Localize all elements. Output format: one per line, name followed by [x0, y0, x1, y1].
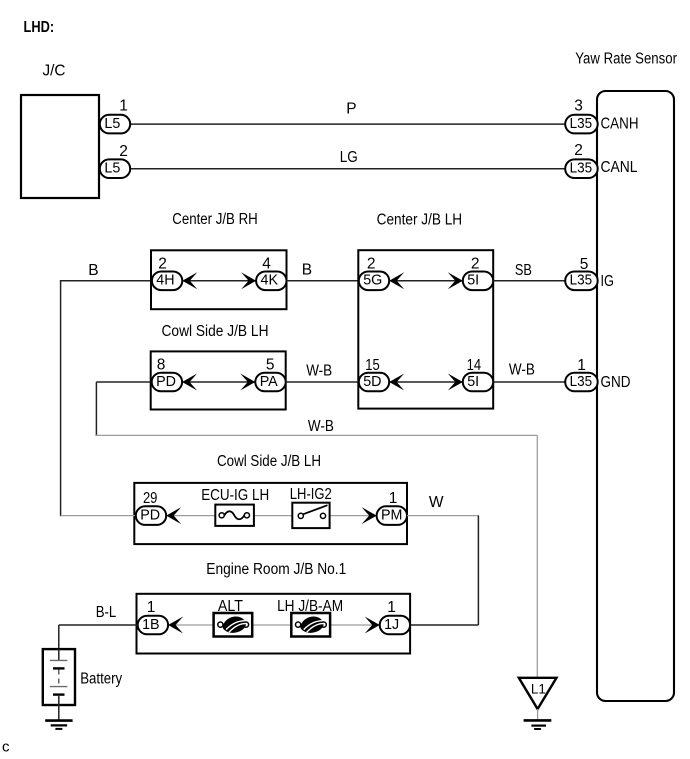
wire W-B vertical to L1 — [536, 435, 538, 678]
svg-text:1: 1 — [147, 599, 156, 616]
svg-text:L35: L35 — [570, 116, 593, 132]
svg-text:CANL: CANL — [601, 159, 638, 176]
svg-text:PM: PM — [381, 508, 402, 524]
fusible link ALT — [214, 613, 253, 637]
svg-text:2: 2 — [574, 142, 583, 159]
svg-text:1J: 1J — [384, 617, 399, 633]
svg-text:W-B: W-B — [306, 363, 332, 380]
wire W-B vertical upper — [95, 382, 97, 436]
svg-text:L35: L35 — [570, 374, 593, 390]
svg-text:2: 2 — [158, 255, 167, 272]
svg-text:1B: 1B — [142, 617, 160, 633]
internal wire 5G-5I — [389, 280, 463, 282]
battery dashed center — [58, 670, 60, 687]
wire W-B between PA and 5D — [286, 381, 359, 383]
svg-text:3: 3 — [574, 98, 583, 115]
wire into 1J — [410, 624, 478, 626]
Cowl Side J/B LH upper box — [151, 351, 286, 409]
svg-text:c: c — [2, 739, 10, 756]
svg-text:5: 5 — [266, 357, 275, 374]
Center J/B RH box — [151, 250, 287, 309]
svg-text:14: 14 — [467, 357, 482, 374]
arrow right at 5I gnd — [448, 374, 463, 391]
Yaw Rate Sensor box — [597, 91, 674, 701]
svg-text:Battery: Battery — [80, 671, 122, 688]
svg-text:1: 1 — [387, 599, 396, 616]
arrow right at 1J — [365, 617, 380, 634]
svg-text:29: 29 — [143, 490, 158, 507]
junction connector J/C box — [21, 95, 99, 198]
svg-text:Cowl Side J/B LH: Cowl Side J/B LH — [217, 453, 321, 470]
svg-text:PA: PA — [260, 374, 278, 390]
Engine Room J/B No.1 box — [137, 594, 411, 654]
ground stub below L1 — [537, 709, 539, 719]
wire B between blocks — [287, 280, 359, 282]
svg-text:W-B: W-B — [509, 362, 535, 379]
svg-text:5: 5 — [580, 256, 589, 273]
battery box — [43, 649, 75, 705]
svg-text:CANH: CANH — [601, 115, 639, 132]
svg-text:Cowl Side J/B LH: Cowl Side J/B LH — [162, 323, 269, 340]
svg-text:4: 4 — [262, 255, 271, 272]
arrow left at 4H — [182, 272, 197, 289]
wire B-L vertical to battery — [58, 625, 60, 650]
arrow left at 1B — [168, 617, 183, 634]
wire gray from B vertical to PD — [61, 515, 137, 517]
svg-text:1: 1 — [389, 490, 398, 507]
battery plate short 1 — [53, 667, 65, 669]
svg-text:B-L: B-L — [96, 604, 117, 621]
svg-text:LG: LG — [340, 149, 358, 166]
arrow right at PM — [362, 507, 377, 524]
arrow left at 5G — [389, 272, 404, 289]
wire W-B long horizontal — [96, 434, 538, 436]
svg-text:1: 1 — [577, 357, 586, 374]
svg-text:ECU-IG LH: ECU-IG LH — [201, 487, 269, 504]
svg-text:PD: PD — [140, 508, 160, 524]
svg-text:B: B — [302, 262, 312, 279]
svg-text:15: 15 — [365, 357, 380, 374]
svg-text:LHD:: LHD: — [24, 19, 55, 36]
wire W vertical — [477, 516, 479, 625]
Center J/B LH box — [358, 250, 493, 408]
arrow left at 5D — [389, 374, 404, 391]
svg-text:2: 2 — [471, 255, 480, 272]
svg-text:Engine Room J/B No.1: Engine Room J/B No.1 — [206, 561, 346, 578]
wire P (CANH) — [128, 123, 567, 125]
svg-text:B: B — [88, 262, 98, 279]
arrow left at PD lower — [166, 507, 181, 524]
wire B-L horizontal — [59, 624, 138, 626]
svg-text:L1: L1 — [531, 682, 546, 697]
fuse ECU-IG LH — [215, 505, 254, 526]
svg-text:L5: L5 — [104, 116, 120, 132]
wire stub PD left — [96, 381, 153, 383]
svg-text:Center J/B RH: Center J/B RH — [172, 211, 258, 228]
battery plate long 2 — [50, 686, 68, 688]
internal wire 5D-5I — [389, 381, 463, 383]
svg-text:LH-IG2: LH-IG2 — [290, 486, 332, 503]
wire LG (CANL) — [128, 168, 567, 170]
svg-text:L35: L35 — [570, 273, 593, 289]
battery plate short 2 — [53, 693, 65, 695]
internal wire 4H-4K — [182, 280, 256, 282]
svg-text:4H: 4H — [156, 273, 174, 289]
svg-text:IG: IG — [601, 273, 615, 290]
svg-text:4K: 4K — [261, 273, 279, 289]
ground connector L1 triangle — [519, 678, 557, 709]
fusible link LH J/B-AM — [291, 613, 330, 637]
svg-text:8: 8 — [157, 357, 166, 374]
svg-text:Yaw Rate Sensor: Yaw Rate Sensor — [575, 51, 677, 68]
svg-text:Center J/B LH: Center J/B LH — [377, 212, 463, 229]
svg-text:J/C: J/C — [43, 63, 66, 80]
wire B from vertical to Center J/B RH — [60, 280, 153, 282]
svg-text:L35: L35 — [570, 161, 593, 177]
svg-text:W: W — [429, 494, 444, 511]
battery plate long 1 — [50, 659, 68, 661]
switch LH-IG2 — [292, 503, 329, 528]
svg-text:SB: SB — [515, 262, 532, 279]
wire W-B to GND — [493, 381, 567, 383]
battery internal top lead — [58, 649, 60, 660]
ground at L1 — [524, 719, 552, 722]
wire B vertical — [60, 281, 62, 516]
internal wire PD-PA — [182, 381, 256, 383]
arrow left at PD — [182, 374, 197, 391]
wire W gray — [407, 515, 479, 517]
svg-text:5I: 5I — [467, 273, 479, 289]
svg-text:5I: 5I — [467, 374, 479, 390]
wire SB — [493, 280, 567, 282]
arrow right at 5I — [448, 272, 463, 289]
arrow right at 4K — [241, 272, 256, 289]
svg-text:GND: GND — [601, 374, 631, 391]
svg-text:2: 2 — [119, 143, 128, 160]
svg-text:5D: 5D — [363, 374, 381, 390]
svg-text:P: P — [346, 101, 356, 118]
svg-text:5G: 5G — [363, 273, 382, 289]
svg-text:W-B: W-B — [308, 418, 334, 435]
svg-text:PD: PD — [156, 374, 176, 390]
internal gray wire through fusible links — [168, 624, 220, 626]
svg-text:1: 1 — [119, 98, 128, 115]
arrow right at PA — [240, 374, 255, 391]
Cowl Side J/B LH lower box — [134, 483, 407, 544]
svg-text:L5: L5 — [104, 161, 120, 177]
battery bottom lead — [58, 695, 60, 720]
svg-text:2: 2 — [367, 255, 376, 272]
ground at battery — [45, 719, 72, 722]
internal gray wire through fuse and relay — [166, 515, 222, 517]
